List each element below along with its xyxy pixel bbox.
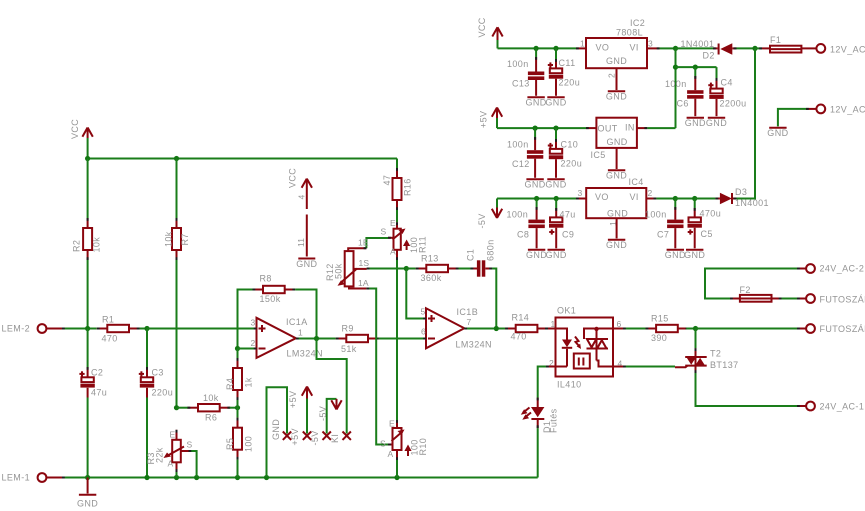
- pin cross +5V: [303, 432, 311, 440]
- junction C6 branch: [673, 65, 678, 70]
- wire D2 to F1 node: [737, 47, 756, 49]
- svg-text:E: E: [170, 430, 176, 440]
- svg-text:C13: C13: [512, 79, 530, 89]
- capacitor C11: [548, 48, 563, 95]
- svg-text:GND: GND: [526, 250, 547, 260]
- trimmer R10: [388, 420, 412, 460]
- junction LEM-1/GND loop: [264, 475, 269, 480]
- fuse F1: [755, 46, 816, 53]
- svg-text:7: 7: [467, 317, 472, 327]
- wire IC5 IN: [637, 127, 676, 129]
- svg-text:GND: GND: [606, 56, 627, 66]
- wire -5V flag to cross: [327, 399, 337, 434]
- wire R6 to R4 node: [230, 407, 238, 409]
- svg-text:100n: 100n: [507, 210, 529, 220]
- svg-text:R9: R9: [342, 324, 354, 334]
- ground GND (C13): [525, 97, 546, 107]
- svg-text:IC1B: IC1B: [457, 307, 479, 317]
- svg-text:3: 3: [578, 188, 583, 198]
- svg-text:IC2: IC2: [630, 18, 645, 28]
- wire D3 to unregulated node: [737, 48, 756, 198]
- svg-text:IC1A: IC1A: [286, 317, 308, 327]
- capacitor C2: [79, 367, 94, 398]
- ground GND (IC2): [606, 68, 627, 101]
- svg-text:S: S: [381, 227, 387, 237]
- junction LEM-1/C2: [85, 475, 90, 480]
- svg-text:GND: GND: [545, 180, 566, 190]
- voltage regulator IC4: [586, 188, 646, 218]
- capacitor C3: [139, 367, 154, 398]
- svg-text:VI: VI: [630, 192, 639, 202]
- ground GND (LEM-1): [77, 478, 98, 509]
- svg-text:220u: 220u: [561, 159, 583, 169]
- wire GND loop: [267, 387, 288, 477]
- svg-text:220u: 220u: [152, 388, 174, 398]
- svg-text:1A: 1A: [358, 278, 369, 288]
- wire D1 to LEM-1 row: [537, 428, 539, 477]
- wire node to R13: [406, 268, 416, 270]
- capacitor C4: [708, 67, 723, 116]
- ground GND (C4): [706, 118, 727, 128]
- svg-text:GND: GND: [524, 180, 545, 190]
- wire C3 to LEM-1 row: [146, 398, 148, 478]
- svg-text:GND: GND: [607, 209, 628, 219]
- svg-text:GND: GND: [606, 92, 627, 102]
- svg-text:S: S: [187, 440, 193, 450]
- svg-text:24V_AC-2: 24V_AC-2: [820, 264, 865, 274]
- power flag +5V (K1 header): [302, 387, 312, 399]
- diode D2: [713, 43, 737, 55]
- wire IC1A pin2: [238, 348, 257, 350]
- svg-text:IN: IN: [625, 123, 635, 133]
- wire C3 column upper: [146, 329, 148, 368]
- junction C13/VCC: [534, 46, 539, 51]
- op-amp IC1A: [257, 318, 296, 358]
- svg-text:+5V: +5V: [479, 111, 489, 128]
- ground GND (C11): [545, 97, 566, 107]
- junction R1/C3 node: [144, 326, 149, 331]
- svg-text:470: 470: [102, 334, 118, 344]
- svg-text:100n: 100n: [507, 140, 529, 150]
- ground GND (C5): [684, 250, 705, 260]
- svg-text:C6: C6: [677, 99, 689, 109]
- junction LEM-1/R10: [394, 475, 399, 480]
- svg-text:1E: 1E: [358, 238, 369, 248]
- svg-text:E: E: [389, 419, 395, 429]
- wire T2 to 24V_AC-1: [696, 373, 798, 406]
- wire R2 to LEM-2 row: [87, 260, 89, 329]
- svg-text:IC5: IC5: [591, 150, 606, 160]
- svg-text:2: 2: [607, 73, 617, 78]
- wire VCC row: [498, 47, 577, 49]
- svg-text:F2: F2: [740, 285, 751, 295]
- wire unregulated column: [675, 48, 677, 128]
- junction C7/-5Vin: [673, 196, 678, 201]
- wire R14 to OK1 pin1: [548, 328, 556, 330]
- svg-text:OUT: OUT: [598, 124, 618, 134]
- voltage regulator IC5: [586, 118, 637, 148]
- svg-text:A: A: [388, 449, 394, 459]
- svg-text:220u: 220u: [559, 78, 581, 88]
- wire -5V row to IC4: [576, 198, 586, 200]
- svg-text:-5V: -5V: [310, 430, 320, 445]
- svg-text:IC4: IC4: [629, 177, 644, 187]
- wire IC1B output: [464, 328, 506, 330]
- svg-text:GND: GND: [545, 98, 566, 108]
- svg-text:360k: 360k: [421, 273, 442, 283]
- svg-text:R1: R1: [102, 315, 114, 325]
- svg-text:GND: GND: [685, 118, 706, 128]
- wire node to FUTOSZÁL-1 terminal: [696, 328, 798, 330]
- svg-text:50k: 50k: [334, 263, 344, 279]
- wire OK1 pin2 to D1: [538, 367, 556, 398]
- wire C2 to LEM-1 row: [87, 398, 89, 478]
- svg-text:IL410: IL410: [557, 380, 582, 390]
- svg-text:GND: GND: [767, 128, 788, 138]
- junction C9/-5V: [554, 196, 559, 201]
- power pin 4 VCC (LM324): [302, 179, 312, 209]
- svg-text:2: 2: [648, 188, 653, 198]
- junction LEM-1/R3 wiper: [194, 475, 199, 480]
- capacitor C1: [471, 260, 493, 276]
- svg-text:D2: D2: [703, 51, 715, 61]
- svg-text:GND: GND: [684, 250, 705, 260]
- capacitor C6: [687, 67, 703, 116]
- svg-text:100n: 100n: [645, 210, 667, 220]
- svg-text:2: 2: [251, 338, 256, 348]
- wire R9 to IC1B pin6: [379, 338, 427, 340]
- ground GND (12V_AC-1): [767, 128, 788, 138]
- voltage regulator IC2: [586, 38, 647, 68]
- junction LEM-1/R3: [174, 475, 179, 480]
- svg-text:S: S: [380, 439, 386, 449]
- terminal 24V_AC-2: [797, 264, 815, 273]
- resistor R4: [233, 358, 242, 400]
- wire -5V row: [497, 198, 576, 200]
- svg-text:BT137: BT137: [710, 360, 739, 370]
- capacitor C9: [549, 199, 563, 249]
- svg-text:47u: 47u: [560, 210, 576, 220]
- svg-text:1k: 1k: [244, 377, 254, 387]
- svg-text:680n: 680n: [486, 239, 496, 261]
- svg-text:390: 390: [651, 333, 667, 343]
- svg-text:R6: R6: [205, 413, 217, 423]
- ground GND (C8): [526, 250, 547, 260]
- svg-text:12V_AC-2: 12V_AC-2: [830, 45, 865, 55]
- svg-text:3: 3: [251, 318, 256, 328]
- resistor R2: [83, 218, 92, 260]
- triac T2: [685, 348, 707, 373]
- junction LEM-2/R2 node: [85, 326, 90, 331]
- junction VCC/R7: [174, 156, 179, 161]
- svg-text:C10: C10: [561, 140, 579, 150]
- svg-text:7808L: 7808L: [616, 28, 643, 38]
- junction IC1A pin2/R4: [235, 346, 240, 351]
- capacitor C13: [528, 48, 544, 95]
- svg-text:F1: F1: [770, 35, 781, 45]
- svg-text:VCC: VCC: [288, 168, 298, 188]
- terminal 12V_AC-2: [816, 44, 825, 53]
- svg-text:10k: 10k: [203, 393, 219, 403]
- wire R4 bottom: [237, 400, 239, 408]
- wire R8 to output node: [295, 290, 316, 339]
- power flag VCC (regulator): [492, 27, 502, 48]
- power flag VCC (left rail): [82, 128, 92, 159]
- svg-text:GND: GND: [271, 419, 281, 440]
- svg-text:1S: 1S: [359, 258, 370, 268]
- LED D1: [521, 398, 545, 429]
- svg-text:GND: GND: [665, 250, 686, 260]
- junction LEM-1/C3: [144, 475, 149, 480]
- capacitor C5: [688, 199, 702, 249]
- ground GND (pin11): [296, 259, 317, 269]
- junction LEM-1/R5: [235, 475, 240, 480]
- capacitor C12: [527, 128, 543, 178]
- junction R6/R7 column: [174, 405, 179, 410]
- svg-text:1N4001: 1N4001: [681, 39, 715, 49]
- wire 12V_AC-1 to GND: [778, 109, 817, 127]
- resistor R1: [97, 325, 140, 332]
- junction C10/+5V: [553, 126, 558, 131]
- svg-text:D3: D3: [735, 187, 747, 197]
- wire IC1A pin2 feedback vertical: [238, 290, 253, 349]
- wire R10 to LEM-1: [396, 460, 398, 478]
- wire R5 to LEM-1: [237, 460, 239, 478]
- svg-text:47u: 47u: [91, 388, 107, 398]
- terminal FUTOSZÁL-2: [797, 294, 815, 303]
- junction D2/F1 node: [752, 46, 757, 51]
- capacitor C10: [548, 128, 563, 178]
- svg-text:VCC: VCC: [70, 119, 80, 139]
- wire R11 S to R12 1E: [366, 238, 388, 248]
- fuse F2: [730, 295, 782, 302]
- power pin 11 GND (LM324): [306, 215, 308, 257]
- svg-text:C5: C5: [701, 229, 713, 239]
- svg-text:R2: R2: [72, 240, 82, 252]
- svg-text:VCC: VCC: [477, 17, 487, 37]
- capacitor C8: [528, 199, 544, 249]
- svg-text:VO: VO: [595, 192, 609, 202]
- wire IC1A output: [296, 338, 336, 340]
- wire node to T2: [695, 329, 697, 349]
- terminal FUTOSZÁL-1: [797, 324, 815, 333]
- junction C5/-5Vin: [692, 196, 697, 201]
- svg-text:100n: 100n: [665, 79, 687, 89]
- svg-text:C7: C7: [657, 230, 669, 240]
- svg-text:GND: GND: [607, 137, 628, 147]
- wire C1 to output node: [492, 269, 496, 329]
- svg-text:C8: C8: [517, 230, 529, 240]
- svg-text:R13: R13: [421, 254, 439, 264]
- svg-text:LEM-1: LEM-1: [2, 473, 31, 483]
- svg-text:+5V: +5V: [288, 391, 298, 408]
- capacitor C7: [667, 199, 683, 249]
- pin nubs (various): [62, 48, 809, 477]
- svg-text:R11: R11: [418, 236, 428, 253]
- wire LEM-1 row: [62, 477, 538, 479]
- svg-text:LM324N: LM324N: [456, 340, 492, 350]
- svg-text:A: A: [168, 459, 174, 469]
- svg-text:R14: R14: [512, 313, 530, 323]
- resistor R14: [505, 325, 548, 332]
- diode D3: [715, 193, 736, 205]
- svg-text:22k: 22k: [155, 447, 165, 463]
- svg-text:1: 1: [551, 319, 556, 329]
- optocoupler OK1: [556, 318, 614, 377]
- wire R7 column to R6 node: [176, 260, 178, 408]
- svg-text:470: 470: [511, 332, 527, 342]
- svg-text:+5V: +5V: [290, 428, 300, 445]
- svg-text:100: 100: [244, 436, 254, 452]
- wire node to IC1B pin5: [406, 269, 426, 319]
- svg-text:FUTOSZÁL-1: FUTOSZÁL-1: [820, 324, 865, 334]
- wire IC4 VI: [646, 198, 675, 200]
- wire C5 node to D3: [695, 198, 716, 200]
- svg-text:GND: GND: [706, 118, 727, 128]
- wire C7 to C5 node: [675, 198, 694, 200]
- svg-text:12V_AC-1: 12V_AC-1: [830, 105, 865, 115]
- junction C6 column: [693, 65, 698, 70]
- svg-text:VO: VO: [596, 43, 610, 53]
- terminal LEM-1: [38, 473, 62, 482]
- wire R4 top: [237, 349, 239, 359]
- svg-text:51k: 51k: [341, 344, 357, 354]
- svg-text:1: 1: [580, 39, 585, 49]
- svg-text:C1: C1: [466, 249, 476, 261]
- wire R15 to FUTOSZÁL-1 node: [686, 328, 695, 330]
- junction C12/+5V: [533, 126, 538, 131]
- ground GND (IC5): [606, 148, 627, 181]
- wire C6/C4 branch: [676, 66, 717, 68]
- svg-text:FUTOSZÁL-2: FUTOSZÁL-2: [820, 295, 865, 305]
- svg-text:C3: C3: [152, 368, 164, 378]
- junction C11/VCC: [553, 46, 558, 51]
- wire C2 column upper: [87, 329, 89, 368]
- wire VCC row to IC2: [576, 47, 586, 49]
- wire R1 to C3 node: [140, 328, 148, 330]
- svg-text:3: 3: [648, 39, 653, 49]
- pin cross -5V: [323, 432, 331, 440]
- terminal 12V_AC-1: [816, 105, 825, 114]
- wire IC2 VI to D2 node: [647, 47, 676, 49]
- trimmer R3: [164, 430, 189, 472]
- svg-text:R16: R16: [403, 178, 413, 196]
- svg-text:OK1: OK1: [557, 306, 576, 316]
- terminal LEM-2: [38, 324, 62, 333]
- junction R12/R13/pin5 node: [404, 266, 409, 271]
- svg-text:A: A: [390, 247, 396, 257]
- svg-text:47: 47: [382, 175, 392, 186]
- wire LEM-2 row left: [62, 328, 97, 330]
- resistor R16: [393, 168, 402, 210]
- svg-text:R7: R7: [180, 233, 190, 245]
- wire VCC rail to R16: [396, 159, 398, 169]
- trimmer R11: [388, 222, 410, 260]
- resistor R15: [646, 325, 689, 332]
- wire R3 wiper: [189, 451, 197, 478]
- svg-text:GND: GND: [606, 240, 627, 250]
- power flag -5V: [492, 199, 502, 219]
- svg-text:GND: GND: [296, 259, 317, 269]
- svg-text:10k: 10k: [164, 231, 174, 247]
- svg-text:-5V: -5V: [318, 406, 328, 421]
- svg-text:100n: 100n: [507, 59, 529, 69]
- wire +5V row: [497, 127, 586, 129]
- junction IC2 VI node: [673, 46, 678, 51]
- wire LEM-2 row to IC1A pin3: [147, 328, 257, 330]
- wire VCC rail horizontal: [88, 158, 397, 160]
- svg-text:6: 6: [421, 327, 426, 337]
- svg-text:1: 1: [298, 328, 303, 338]
- wire R6 row: [177, 407, 189, 409]
- wire R2 column upper: [87, 159, 89, 219]
- resistor R9: [336, 335, 379, 342]
- junction C8/-5V: [534, 196, 539, 201]
- svg-text:C2: C2: [91, 368, 103, 378]
- wire D2 node row: [676, 47, 714, 49]
- wire F2 to FUTOSZÁL-2: [782, 298, 798, 300]
- wire R12 1S to node: [367, 268, 407, 270]
- power flag +5V: [492, 108, 502, 129]
- svg-text:GND: GND: [546, 250, 567, 260]
- pin cross K1: [343, 432, 351, 440]
- svg-text:24V_AC-1: 24V_AC-1: [820, 402, 865, 412]
- svg-text:R5: R5: [225, 438, 235, 450]
- resistor R7: [172, 218, 181, 260]
- svg-text:T2: T2: [710, 349, 721, 359]
- ground GND (IC4): [606, 218, 627, 250]
- resistor R13: [416, 265, 459, 272]
- resistor R6: [188, 404, 231, 411]
- wire R3 bottom to LEM-1: [176, 472, 178, 478]
- junction IC1B output/C1: [494, 326, 499, 331]
- wire R7 column upper: [176, 159, 178, 219]
- wire OK1 pin4 to T2 gate: [613, 366, 688, 368]
- svg-text:C4: C4: [721, 78, 733, 88]
- junction VCC/R2: [85, 156, 90, 161]
- ground GND (C9): [546, 250, 567, 260]
- svg-text:5: 5: [421, 307, 426, 317]
- svg-text:11: 11: [296, 238, 306, 247]
- svg-text:VI: VI: [630, 43, 639, 53]
- ground GND (C10): [545, 179, 566, 189]
- svg-text:Futés: Futés: [549, 408, 559, 433]
- svg-text:C9: C9: [562, 230, 574, 240]
- svg-text:R4: R4: [225, 378, 235, 390]
- resistor R5: [233, 408, 242, 460]
- svg-text:GND: GND: [525, 98, 546, 108]
- wire R12 1A down: [366, 289, 388, 445]
- svg-text:470u: 470u: [700, 209, 722, 219]
- svg-text:LEM-2: LEM-2: [2, 324, 31, 334]
- svg-text:C12: C12: [512, 159, 530, 169]
- svg-text:E: E: [390, 218, 396, 228]
- wire R16 to R11: [396, 210, 398, 222]
- svg-text:KI: KI: [330, 434, 340, 443]
- svg-text:10k: 10k: [92, 237, 102, 253]
- svg-text:GND: GND: [606, 171, 627, 181]
- terminal 24V_AC-1: [797, 402, 815, 411]
- ground GND (C6): [685, 118, 706, 128]
- wire +5V flag to cross: [306, 399, 308, 434]
- svg-text:R8: R8: [260, 274, 272, 284]
- ground GND (C7): [665, 250, 686, 260]
- potentiometer R12: [338, 248, 367, 288]
- wire LEM-1 corner: [537, 477, 539, 479]
- svg-text:C11: C11: [559, 58, 576, 68]
- ground GND (C12): [524, 179, 545, 189]
- svg-text:-5V: -5V: [477, 213, 487, 228]
